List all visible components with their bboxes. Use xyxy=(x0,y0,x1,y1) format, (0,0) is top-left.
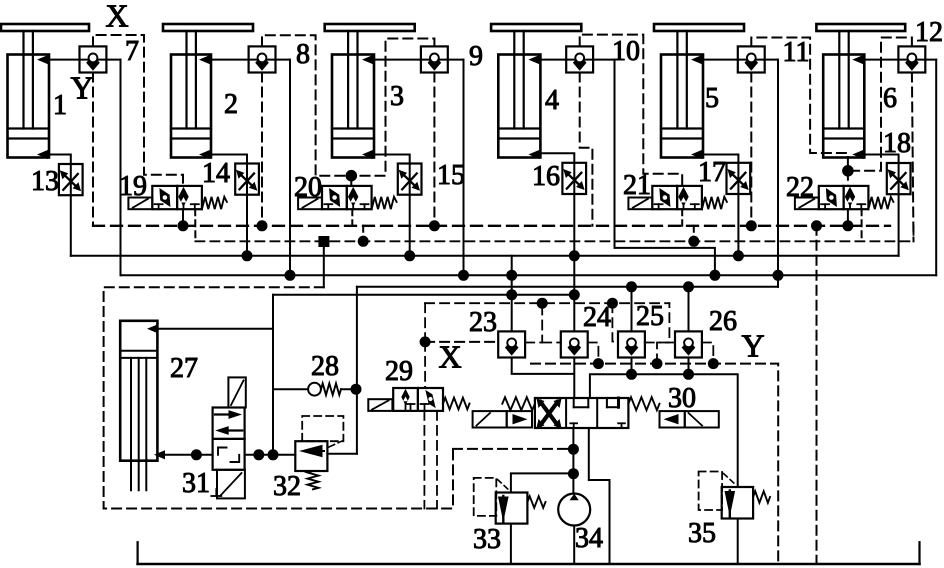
valve30 T-port to tank xyxy=(589,428,610,564)
junction dot pilotbus-542 xyxy=(537,298,548,309)
pilot-operated check valve 9 xyxy=(421,46,448,72)
svg-text:11: 11 xyxy=(783,37,810,68)
pilot X line box10-top to valve21 xyxy=(580,35,683,186)
svg-text:32: 32 xyxy=(273,471,301,502)
junction dot valve22 pilot xyxy=(842,165,854,177)
svg-text:1: 1 xyxy=(53,90,67,121)
junction dot box9-bus2 xyxy=(458,270,469,281)
valve29 drain b (dashed) xyxy=(436,411,438,509)
junction dot valve19-Y xyxy=(178,220,189,231)
junction dot line23-bus2 xyxy=(506,270,517,281)
wire check 11 output to bus2 riser xyxy=(777,60,779,276)
throttle valve 14 xyxy=(235,164,259,195)
valve30 left position crossed arrows xyxy=(541,402,558,425)
pilot X line box12-top to valve22 xyxy=(848,38,912,171)
check valve 28 xyxy=(273,388,308,390)
wire ram27 top port xyxy=(157,328,273,330)
junction dot box25-netB xyxy=(626,369,637,380)
pilot-operated check valve 11 xyxy=(738,46,765,72)
pilot-operated check valve 25 xyxy=(618,331,645,357)
wire check 7 output to bus2 riser xyxy=(120,60,122,276)
X pilot line to box23 left xyxy=(425,341,498,343)
pilot bus X2 (dashed) xyxy=(425,302,669,304)
pilot X line box8-top to valve20 xyxy=(262,35,351,176)
svg-text:8: 8 xyxy=(296,39,310,70)
pilot drop box26 left xyxy=(657,343,675,364)
svg-text:3: 3 xyxy=(390,81,404,112)
valve21 outlet to Y bus xyxy=(681,209,683,226)
valve19 outlet to Y bus xyxy=(182,209,184,226)
wire cyl2 bottom to throttle14 xyxy=(210,155,247,256)
wire valve20 pilot entry xyxy=(350,176,352,186)
svg-text:6: 6 xyxy=(883,83,897,114)
pilot Y drain below box9 xyxy=(433,73,435,226)
wire check 10 output jog to bus2 xyxy=(615,60,715,276)
Y pilot line (dashed) to tank xyxy=(531,364,778,564)
tank line xyxy=(138,563,920,566)
wire box26 to netB xyxy=(688,358,690,375)
wire cyl1 bottom to throttle13 to bus1 xyxy=(48,155,71,256)
wire cyl3 rod-side to check 9 xyxy=(373,59,463,61)
drain bus riser from box12 xyxy=(913,226,915,242)
svg-text:35: 35 xyxy=(688,518,716,549)
pilot-operated check valve 24 xyxy=(561,331,588,357)
wire cyl4 bottom to throttle16 xyxy=(540,153,575,256)
svg-text:33: 33 xyxy=(473,524,501,555)
junction dot box25-bus3 xyxy=(626,281,637,292)
junction dot box9-Y xyxy=(429,220,440,231)
enclosure pilot riser xyxy=(323,242,325,288)
svg-text:28: 28 xyxy=(311,351,339,382)
svg-text:20: 20 xyxy=(294,172,322,203)
junction dot check28-bus3feed xyxy=(351,384,362,395)
valve19 spring drain to bus xyxy=(194,209,196,241)
throttle valve 13 xyxy=(59,164,83,195)
junction dot box24R-Yline xyxy=(593,358,604,369)
pilot-operated check valve 7 xyxy=(80,46,107,72)
valve30 left actuator boxes xyxy=(473,411,507,427)
junction dot v31-v32 line b xyxy=(268,449,279,460)
pilot X line box7-top to valve19 xyxy=(93,35,183,186)
hydraulic cylinder 1 with platen xyxy=(1,24,89,31)
junction dot box26-netB xyxy=(683,369,694,380)
junction dot line24-bus4 end xyxy=(569,289,580,300)
wire check 12 output to bus2 riser xyxy=(935,60,937,276)
wire relief33 to pump line xyxy=(511,473,574,492)
Y pilot bus (dashed) xyxy=(93,225,890,227)
junction dot P-473 xyxy=(568,468,579,479)
pilot drop box26 right xyxy=(702,343,713,364)
svg-text:16: 16 xyxy=(532,161,560,192)
wire valve22 pilot entry xyxy=(847,171,849,186)
svg-text:30: 30 xyxy=(668,383,696,414)
station enclosure (dashed) xyxy=(104,287,453,508)
svg-text:17: 17 xyxy=(698,157,726,188)
pilot-operated check valve 10 xyxy=(566,46,593,72)
valve20 outlet to Y bus xyxy=(351,209,353,226)
svg-text:X: X xyxy=(105,0,128,34)
wire check 9 output to bus2 riser xyxy=(463,60,465,276)
svg-text:31: 31 xyxy=(182,468,210,499)
bus1 piston-side manifold xyxy=(71,255,899,257)
junction dot box8-Y xyxy=(257,220,268,231)
wire cyl6 rod-side to check 12 xyxy=(864,59,937,61)
hydraulic cylinder 2 with platen xyxy=(163,24,253,31)
solenoid pilot valve 29 xyxy=(368,399,392,411)
junction dot t17-bus1 xyxy=(733,250,744,261)
junction dot box11-bus2 xyxy=(773,270,784,281)
pilot riser box25 left xyxy=(612,303,618,341)
pilot X line box11-top to valve22 xyxy=(751,38,848,171)
svg-text:23: 23 xyxy=(469,307,497,338)
pump suction to tank xyxy=(573,526,575,565)
wire cyl4 rod-side to check 10 xyxy=(540,59,615,61)
X pilot line down to valve29 xyxy=(424,342,426,388)
wire cyl3 bottom to throttle15 xyxy=(373,155,410,256)
junction dot t14-bus1 xyxy=(242,250,253,261)
bus3 manifold xyxy=(357,286,778,288)
solenoid poppet valve 20 xyxy=(322,186,347,209)
svg-text:25: 25 xyxy=(636,301,664,332)
hydraulic cylinder 6 with platen xyxy=(816,24,905,31)
drain pilot bus (dashed) xyxy=(195,240,915,242)
svg-text:13: 13 xyxy=(31,166,59,197)
throttle valve 17 xyxy=(727,163,751,194)
valve30 left spring xyxy=(502,397,535,410)
solenoid poppet valve 21 xyxy=(652,186,677,209)
wire cyl6 bottom to throttle18 to bus1 end xyxy=(864,155,899,256)
junction dot t16-bus1 xyxy=(569,250,580,261)
ram cylinder 27 xyxy=(120,321,157,461)
junction dot valve22-Y xyxy=(842,220,853,231)
bus4 feed riser xyxy=(272,295,274,455)
Y to drain-bus stub at valve20 xyxy=(362,226,364,242)
junction dot valve20 pilot xyxy=(346,170,358,182)
junction dot v31-v32 line a xyxy=(253,449,264,460)
svg-text:26: 26 xyxy=(709,306,737,337)
pilot riser box23R box24L xyxy=(525,303,542,342)
bus3 feed riser xyxy=(356,287,358,454)
pump 34 xyxy=(558,494,590,526)
pilot Y drain below box7 xyxy=(92,73,94,226)
wire bus3 to box25 xyxy=(631,287,633,332)
valve30 right actuator boxes xyxy=(660,411,685,427)
valve29 drain a (dashed) xyxy=(423,411,425,509)
valve30 right position porting xyxy=(606,398,608,407)
svg-text:X: X xyxy=(438,339,461,375)
valve30 P-port to pump xyxy=(572,428,574,494)
wire bus1 to box23 xyxy=(511,256,513,332)
svg-text:14: 14 xyxy=(202,158,230,189)
throttle valve 18 xyxy=(887,163,911,194)
svg-text:10: 10 xyxy=(612,36,640,67)
bus2 rod-side manifold xyxy=(121,274,937,276)
wire valve31 right port xyxy=(245,454,296,456)
wire box25 to netB xyxy=(631,358,633,375)
svg-text:5: 5 xyxy=(705,83,719,114)
pilot riser box25 right xyxy=(645,303,670,342)
pilot X line box9-top to valve20 xyxy=(352,39,434,176)
junction dot Ybus-drain xyxy=(811,220,822,231)
X pilot bus drop xyxy=(424,303,426,342)
valve30 right spring xyxy=(628,397,659,410)
hydraulic cylinder 4 with platen xyxy=(491,24,581,31)
solenoid poppet valve 22 xyxy=(819,186,844,209)
svg-text:2: 2 xyxy=(224,89,238,120)
valve22 spring drain xyxy=(861,209,863,241)
solenoid poppet valve 19 xyxy=(152,186,177,209)
wire bus3 to box26 xyxy=(688,287,690,332)
pilot-operated check valve 12 xyxy=(898,46,925,72)
valve30 centre position porting xyxy=(573,398,575,407)
wire cyl5 bottom to throttle17 xyxy=(702,155,738,256)
throttle valve 16 xyxy=(562,163,586,194)
junction square dot riser-drain-bus xyxy=(318,236,329,247)
pilot-operated check valve 8 xyxy=(249,46,276,72)
pilot-operated check valve 26 xyxy=(675,331,702,357)
wire check 8 output to bus2 riser xyxy=(289,60,291,276)
throttle valve 15 xyxy=(398,164,422,195)
svg-text:12: 12 xyxy=(915,17,943,48)
pilot Y drain below box11 xyxy=(750,73,752,226)
svg-text:21: 21 xyxy=(623,170,651,201)
hydraulic cylinder 5 with platen xyxy=(654,24,744,31)
Y bus drain to tank (dashed) xyxy=(816,226,818,564)
junction dot stub21-drain-bus xyxy=(688,236,699,247)
wire relief33 to tank xyxy=(510,524,512,564)
svg-text:4: 4 xyxy=(545,85,559,116)
relief valve 35 xyxy=(722,487,753,519)
svg-text:29: 29 xyxy=(385,356,413,387)
junction dot box8-bus2 xyxy=(285,270,296,281)
pressure valve 32 xyxy=(295,441,327,471)
svg-text:15: 15 xyxy=(437,160,465,191)
svg-text:22: 22 xyxy=(786,172,814,203)
junction dot pilot-pumpline xyxy=(568,444,579,455)
pilot Y drain below box10 jog xyxy=(580,73,593,226)
svg-text:Y: Y xyxy=(70,70,93,106)
pilot drain below box12 to drain bus xyxy=(912,73,914,242)
wire ram27 annulus to valve31 xyxy=(164,454,213,456)
pilot dashed to pump line xyxy=(453,448,567,450)
relief valve 33 xyxy=(496,493,528,524)
pilot Y drain below box8 xyxy=(261,73,263,226)
pilot-operated check valve 23 xyxy=(498,331,525,357)
svg-text:Y: Y xyxy=(741,328,764,364)
hydraulic cylinder 3 with platen xyxy=(325,24,415,31)
svg-text:27: 27 xyxy=(170,353,198,384)
junction dot box10-bus2 xyxy=(709,270,720,281)
wire cyl5 rod-side to check 11 xyxy=(702,59,778,61)
valve22 outlet to Y bus xyxy=(847,209,849,226)
bus4 manifold xyxy=(273,294,574,296)
wire box23 to netA xyxy=(512,358,574,374)
Y to drain-bus stub at valve21 xyxy=(693,226,695,242)
wire relief35 to tank xyxy=(737,519,739,565)
netB line to valve30 B-port and valve35 xyxy=(590,374,738,487)
solenoid valve 31 xyxy=(228,377,245,407)
wire cyl2 rod-side to check 8 xyxy=(210,59,290,61)
wire cyl1 rod-side to check 7 xyxy=(48,59,120,61)
junction dot box26L-Yline xyxy=(652,358,663,369)
junction dot X-line xyxy=(420,336,431,347)
wire valve16-line to box24 xyxy=(573,256,575,332)
directional valve 30 body xyxy=(535,398,629,428)
junction dot box11-Y xyxy=(746,220,757,231)
junction dot box26R-Yline xyxy=(708,358,719,369)
junction dot annulus line xyxy=(191,449,202,460)
svg-text:9: 9 xyxy=(469,41,483,72)
wire box11 line to bus3 corner xyxy=(777,275,779,287)
junction dot pilotbus-612 xyxy=(607,298,618,309)
svg-text:24: 24 xyxy=(583,302,611,333)
wire box24 to valve30 A-port xyxy=(573,358,575,399)
junction dot box26-bus3 xyxy=(683,281,694,292)
pilot drop box24 right xyxy=(588,343,599,364)
svg-text:34: 34 xyxy=(575,523,603,554)
junction dot line23-bus4 xyxy=(506,289,517,300)
junction dot t15-bus1 xyxy=(404,250,415,261)
svg-text:19: 19 xyxy=(119,171,147,202)
valve29 spring xyxy=(443,398,470,410)
svg-text:18: 18 xyxy=(883,128,911,159)
junction dot stub-drain-bus xyxy=(358,236,369,247)
svg-text:7: 7 xyxy=(125,36,139,67)
